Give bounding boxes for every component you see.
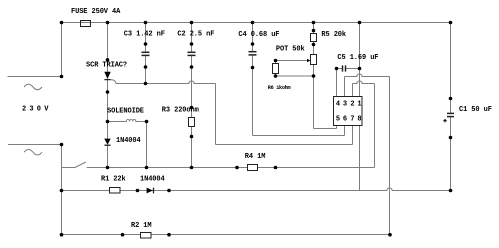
svg-text:C4 0.68 uF: C4 0.68 uF [238, 31, 279, 39]
svg-text:4: 4 [336, 101, 340, 109]
svg-text:R1 22k: R1 22k [101, 175, 126, 183]
svg-text:SOLENOIDE: SOLENOIDE [107, 108, 144, 116]
svg-text:7: 7 [350, 116, 354, 124]
svg-text:C1 50 uF: C1 50 uF [459, 106, 492, 114]
svg-text:C2 2.5 nF: C2 2.5 nF [177, 30, 214, 38]
svg-text:R5 20k: R5 20k [321, 31, 346, 39]
svg-text:C3 1.42 nF: C3 1.42 nF [124, 30, 165, 38]
svg-text:1N4004: 1N4004 [140, 175, 165, 183]
svg-text:SCR TRIAC?: SCR TRIAC? [86, 62, 127, 70]
svg-text:5: 5 [336, 116, 340, 124]
svg-text:3: 3 [343, 101, 347, 109]
svg-text:8: 8 [357, 116, 361, 124]
svg-text:2: 2 [350, 101, 354, 109]
svg-text:1: 1 [357, 101, 361, 109]
svg-text:C5 1.69 uF: C5 1.69 uF [337, 54, 378, 62]
svg-text:1N4004: 1N4004 [116, 137, 141, 145]
svg-text:R2 1M: R2 1M [131, 222, 152, 230]
svg-text:230V: 230V [22, 105, 52, 113]
svg-text:R6 1kohm: R6 1kohm [268, 85, 291, 91]
svg-text:FUSE 250V 4A: FUSE 250V 4A [71, 8, 121, 16]
svg-text:6: 6 [343, 116, 347, 124]
svg-text:R3 220ohm: R3 220ohm [162, 106, 199, 114]
svg-text:R4 1M: R4 1M [245, 153, 266, 161]
svg-text:POT 50k: POT 50k [276, 46, 305, 54]
